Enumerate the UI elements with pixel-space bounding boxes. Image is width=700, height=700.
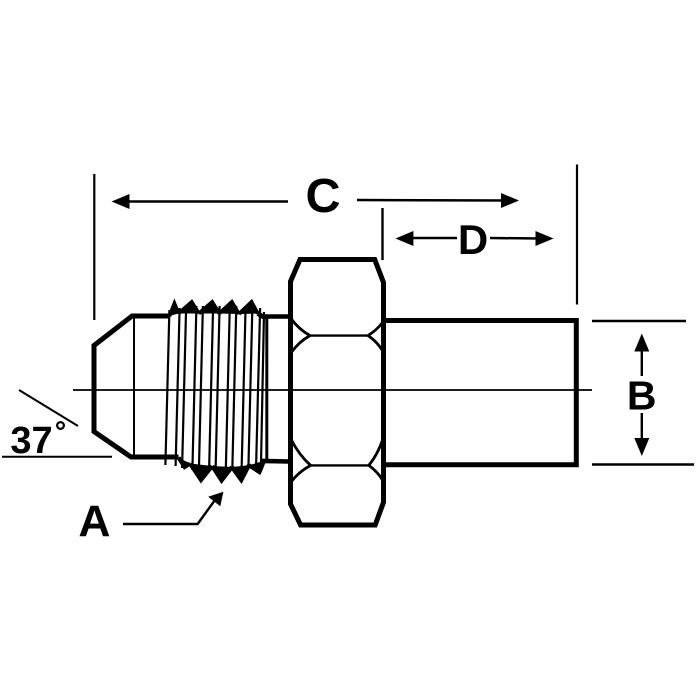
dimension D line right segment <box>490 237 540 240</box>
dimension B upper arrow line <box>641 348 643 376</box>
thread crest teeth bottom <box>179 458 264 481</box>
degree symbol <box>57 422 64 429</box>
svg-text:A: A <box>78 498 110 547</box>
hex middle face lower-left arc <box>291 439 311 465</box>
thread crest teeth top <box>170 302 258 316</box>
hex top face right arc <box>368 322 383 336</box>
dimension C right extension line <box>576 165 578 305</box>
svg-text:D: D <box>458 216 488 263</box>
dimension B bottom extension line <box>592 463 694 466</box>
dimension C line right segment <box>357 199 505 202</box>
dimension B lower arrow line <box>641 413 643 442</box>
hex middle face upper-right arc <box>368 336 383 352</box>
hex bottom face right arc <box>369 465 383 481</box>
dimension D line left segment <box>410 237 457 240</box>
svg-text:37: 37 <box>10 420 52 462</box>
thread runout top edge <box>258 314 289 317</box>
thread flank lines <box>165 306 264 470</box>
hex top face left arc <box>291 319 310 336</box>
dimension B upper arrowhead <box>634 334 649 352</box>
dimension D right arrowhead <box>536 231 554 246</box>
hex face boundary upper flat <box>310 334 368 336</box>
hex middle face lower-right arc <box>369 438 383 465</box>
dimension C line left segment <box>126 200 288 203</box>
tube body <box>384 321 577 465</box>
svg-text:C: C <box>305 169 340 223</box>
hex middle face upper-left arc <box>291 336 310 353</box>
dimension B top extension line <box>592 320 686 323</box>
dimension C left extension line <box>93 174 95 320</box>
dimension C right arrowhead <box>501 193 519 208</box>
dimension D left extension line <box>381 208 383 260</box>
hex bottom face left arc <box>291 465 311 482</box>
flare nose outline <box>94 316 179 457</box>
label A leader arrowhead <box>208 492 223 507</box>
37 degree slanted line <box>19 390 78 426</box>
dimension B lower arrowhead <box>634 438 649 456</box>
svg-text:B: B <box>627 372 657 418</box>
centerline <box>73 389 592 391</box>
dimension D left arrowhead <box>395 231 413 246</box>
thread runout bottom edge <box>259 461 289 472</box>
label A leader line <box>123 500 215 524</box>
hex face boundary lower flat <box>311 464 369 466</box>
hex nut outline <box>291 260 384 526</box>
37 degree horizontal line <box>2 456 112 458</box>
dimension C left arrowhead <box>112 194 130 209</box>
thread runout line <box>265 317 268 461</box>
flare cone base line <box>133 317 135 456</box>
